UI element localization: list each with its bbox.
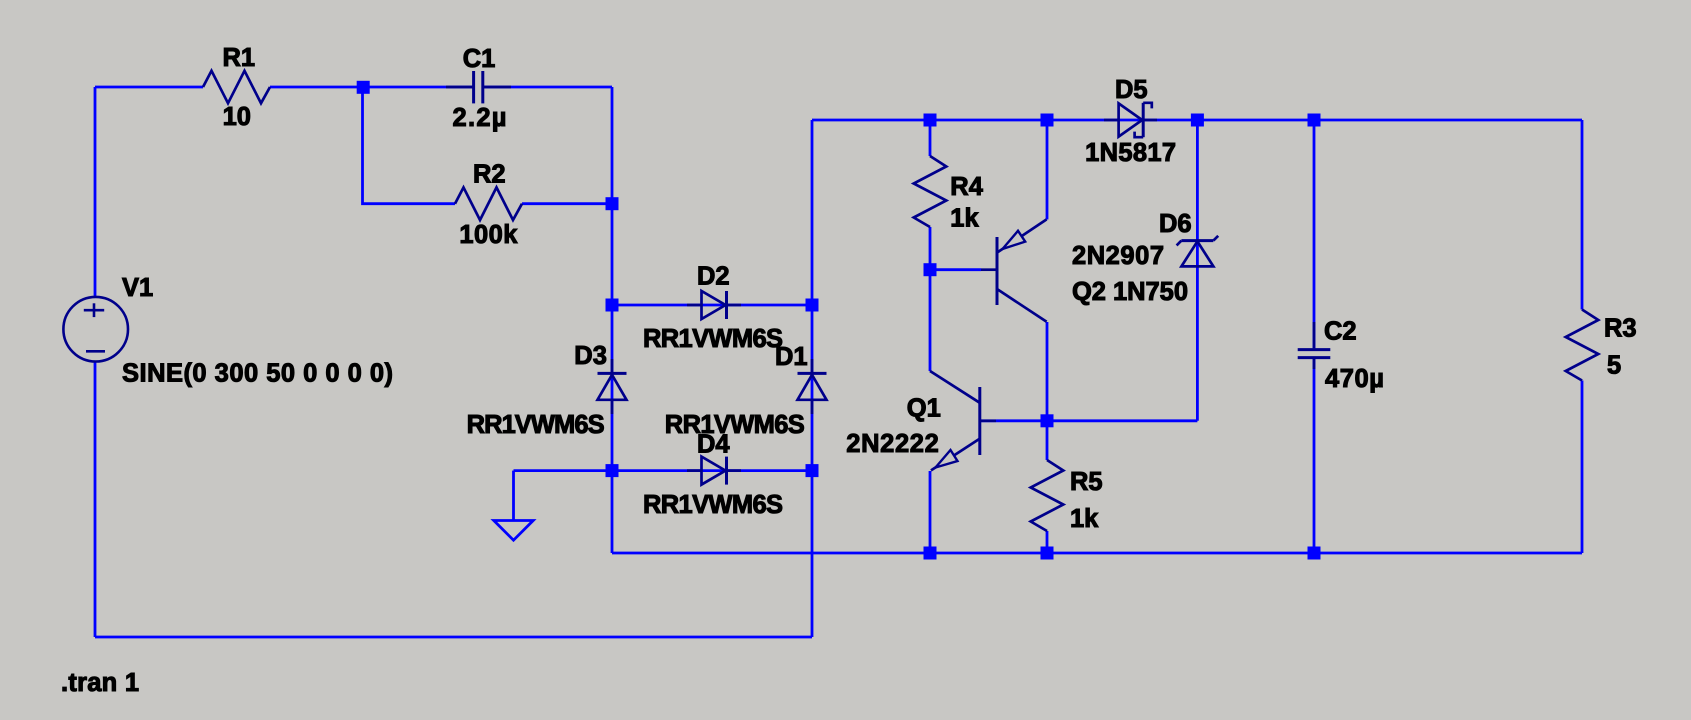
- svg-text:D4: D4: [697, 431, 730, 459]
- svg-text:R1: R1: [223, 44, 256, 72]
- svg-text:1N5817: 1N5817: [1085, 139, 1176, 167]
- svg-text:D3: D3: [574, 342, 607, 370]
- svg-text:D2: D2: [697, 263, 730, 291]
- svg-text:2N2222: 2N2222: [846, 430, 939, 458]
- svg-text:R3: R3: [1604, 315, 1637, 343]
- svg-text:2N2907: 2N2907: [1072, 242, 1164, 270]
- svg-text:.tran 1: .tran 1: [61, 669, 139, 697]
- svg-text:D6: D6: [1159, 210, 1192, 238]
- svg-text:R4: R4: [950, 173, 983, 201]
- svg-text:10: 10: [223, 103, 251, 131]
- svg-text:5: 5: [1607, 352, 1621, 380]
- svg-text:C2: C2: [1324, 318, 1357, 346]
- svg-text:D1: D1: [775, 343, 808, 371]
- svg-text:R2: R2: [473, 161, 506, 189]
- svg-text:RR1VWM6S: RR1VWM6S: [665, 411, 805, 439]
- svg-text:R5: R5: [1070, 468, 1103, 496]
- svg-text:470µ: 470µ: [1325, 365, 1384, 393]
- svg-text:SINE(0 300 50 0 0 0 0): SINE(0 300 50 0 0 0 0): [122, 360, 393, 388]
- svg-text:2.2µ: 2.2µ: [453, 104, 507, 132]
- svg-text:1k: 1k: [950, 205, 979, 233]
- svg-text:D5: D5: [1115, 76, 1148, 104]
- svg-text:Q2 1N750: Q2 1N750: [1072, 278, 1188, 306]
- svg-text:100k: 100k: [459, 221, 518, 249]
- svg-text:Q1: Q1: [907, 394, 941, 422]
- svg-text:V1: V1: [122, 274, 153, 302]
- svg-text:1k: 1k: [1070, 505, 1099, 533]
- svg-text:RR1VWM6S: RR1VWM6S: [467, 411, 605, 439]
- svg-text:C1: C1: [463, 45, 496, 73]
- svg-text:RR1VWM6S: RR1VWM6S: [643, 325, 783, 353]
- svg-text:RR1VWM6S: RR1VWM6S: [643, 491, 783, 519]
